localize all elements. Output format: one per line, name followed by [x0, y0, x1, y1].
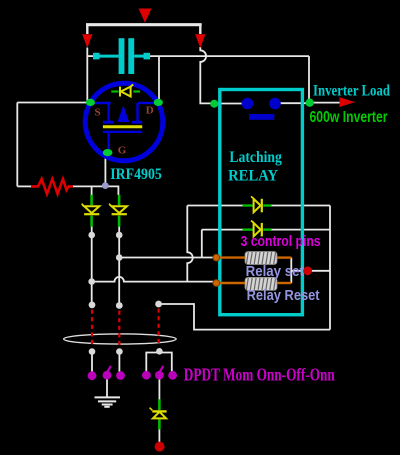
svg-text:RELAY: RELAY [228, 167, 278, 184]
svg-text:Relay Reset: Relay Reset [247, 287, 320, 304]
svg-text:S: S [95, 107, 101, 119]
svg-text:DPDT Mom Onn-Off-Onn: DPDT Mom Onn-Off-Onn [184, 365, 335, 385]
svg-text:3 control pins: 3 control pins [241, 233, 321, 250]
svg-text:Relay set: Relay set [246, 263, 304, 280]
svg-text:600w Inverter: 600w Inverter [310, 109, 388, 126]
svg-text:D: D [146, 105, 154, 117]
svg-text:G: G [118, 144, 127, 156]
svg-text:Inverter Load: Inverter Load [313, 82, 390, 99]
svg-text:Latching: Latching [229, 149, 282, 166]
svg-text:IRF4905: IRF4905 [110, 166, 162, 183]
